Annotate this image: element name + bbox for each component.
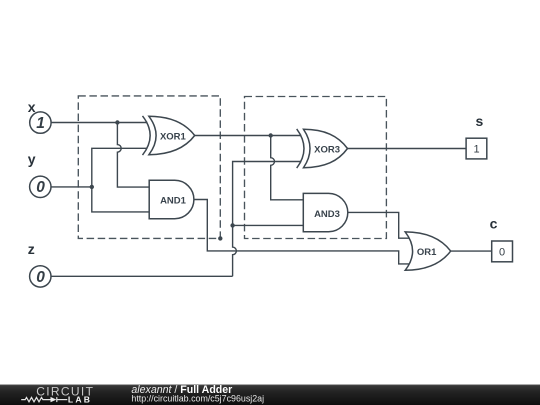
wire: XOR1 output to XOR3 input A — [195, 135, 302, 137]
XOR3 gate body — [297, 129, 348, 168]
junction node on y wire — [90, 185, 94, 189]
dashed annotation box HA1 (half adder 1) — [78, 96, 220, 239]
wire: XOR3 output to output box s — [347, 148, 466, 150]
svg-text:c: c — [490, 216, 498, 232]
dashed annotation box HA2 (half adder 2) — [245, 97, 387, 239]
OR1 gate body — [405, 232, 451, 270]
wire: AND1 output down and across to OR1 input B — [194, 200, 409, 264]
svg-text:0: 0 — [499, 247, 505, 259]
AND3 gate body — [303, 193, 348, 231]
svg-text:1: 1 — [36, 115, 45, 132]
input source z (node circle with logic value 0) — [30, 266, 51, 287]
wire: z riser up (hop over AND1 output wire) to junction — [233, 225, 237, 276]
svg-text:OR1: OR1 — [417, 247, 437, 258]
AND1 gate body — [149, 180, 194, 218]
wire: z junction to AND3 input B — [233, 224, 304, 226]
CircuitLab logo circuit squiggle (wire + resistor + diode) — [21, 397, 67, 402]
output box s (logic value 1) — [466, 138, 487, 159]
output box c (logic value 0) — [492, 241, 513, 262]
wire: y junction up to XOR1 input B — [92, 148, 148, 187]
input source y (node circle with logic value 0) — [30, 176, 51, 197]
input source x (node circle with logic value 1) — [30, 112, 51, 133]
footer bar top highlight line — [0, 384, 540, 387]
wire: y junction down to AND1 input B — [92, 187, 149, 212]
corner dot on HA1 box — [218, 236, 222, 240]
wire: y source to junction — [51, 186, 92, 188]
svg-text:x: x — [28, 99, 36, 115]
svg-text:0: 0 — [36, 269, 45, 286]
svg-text:z: z — [28, 241, 35, 257]
wire: z riser continues up to XOR3 input B — [233, 162, 302, 226]
junction node on XOR1 output wire — [269, 133, 273, 137]
svg-text:http://circuitlab.com/c5j7c96u: http://circuitlab.com/c5j7c96usj2aj — [131, 394, 264, 404]
wire: x source to XOR1 input A — [51, 122, 147, 124]
wire: AND3 output to OR1 input A — [348, 212, 409, 238]
wire: junction down to AND3 input A (hop over z branch) — [271, 136, 304, 200]
junction node on x wire — [115, 120, 119, 124]
svg-text:XOR1: XOR1 — [160, 132, 187, 143]
svg-text:XOR3: XOR3 — [314, 145, 340, 156]
wire: OR1 output to output box c — [451, 250, 492, 252]
svg-text:s: s — [476, 113, 484, 129]
junction node on z riser — [230, 223, 234, 227]
CircuitLab logo diode triangle — [51, 397, 57, 402]
wire: x junction down to AND1 input A (hop over y branch) — [117, 123, 149, 188]
wire: z source to riser — [51, 275, 233, 277]
footer bar background — [0, 385, 540, 405]
svg-text:y: y — [28, 151, 36, 167]
svg-text:1: 1 — [473, 144, 479, 156]
XOR1 gate body — [143, 116, 195, 155]
svg-text:AND3: AND3 — [314, 209, 340, 220]
svg-text:AND1: AND1 — [160, 196, 187, 207]
svg-text:LAB: LAB — [68, 394, 92, 404]
svg-text:0: 0 — [36, 179, 45, 196]
